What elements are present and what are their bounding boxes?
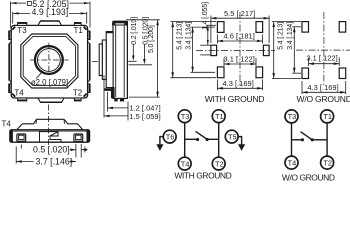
side view feet <box>114 98 124 101</box>
svg-text:5.5 [.217]: 5.5 [.217] <box>224 9 255 18</box>
wire T1-T2 <box>326 123 328 156</box>
dimension 0.5 front <box>70 144 88 158</box>
side view flange top elbow <box>106 31 112 33</box>
dimension 1.4 <box>200 25 216 55</box>
front view centerline <box>47 105 49 147</box>
svg-text:T4: T4 <box>14 88 24 97</box>
top view corner chamfer marks <box>12 27 86 97</box>
dimension 3.4 WOG <box>292 27 301 73</box>
pad T4 <box>302 68 309 79</box>
switch blade S2 <box>301 132 313 140</box>
ground pad left <box>211 45 217 55</box>
svg-text:T4: T4 <box>181 159 190 168</box>
svg-text:T1: T1 <box>323 112 332 121</box>
wire T3-T4 <box>184 123 186 158</box>
wire T6 to ground <box>160 137 163 145</box>
wire T1-T2 <box>218 123 220 158</box>
svg-text:T3: T3 <box>17 26 27 35</box>
pad T3 <box>302 22 309 32</box>
dimension 4.3 WOG <box>302 81 346 94</box>
wire T3-T4 <box>291 123 293 156</box>
dimension 5.0 <box>126 20 160 97</box>
centerlines WITH GROUND <box>196 12 275 86</box>
pad T1 <box>256 22 263 33</box>
front view right pin <box>74 134 83 141</box>
wire T5 to ground <box>238 137 242 145</box>
dimension 4.9 <box>13 12 87 24</box>
terminal T1 <box>321 110 334 123</box>
top view inner octagon <box>21 34 78 88</box>
svg-text:T5: T5 <box>228 132 237 141</box>
node left contact <box>301 138 304 141</box>
dimension 4.6 <box>217 35 262 44</box>
svg-text:4.3 [.169]: 4.3 [.169] <box>307 83 338 92</box>
terminal T2 <box>212 157 225 170</box>
svg-text:W/O GROUND: W/O GROUND <box>297 94 350 104</box>
svg-text:T6: T6 <box>166 132 175 141</box>
terminal T5 <box>225 130 238 143</box>
crosshair centerlines <box>30 43 69 77</box>
wire right contact stub <box>312 139 327 141</box>
terminal T4 <box>178 157 191 170</box>
svg-text:0.2 [.010]: 0.2 [.010] <box>131 17 138 45</box>
pad T4 <box>217 67 224 78</box>
dimension 1.2 <box>104 75 128 121</box>
top view body <box>11 25 87 98</box>
dimension 3.4 WG <box>191 27 216 72</box>
side view top terminal cap <box>112 21 128 26</box>
ground pad right <box>263 45 269 55</box>
side view bent terminal <box>104 87 114 98</box>
dimension 3.1 WG <box>224 58 256 66</box>
centerlines W/O GROUND <box>296 12 350 86</box>
front view left pin <box>17 134 26 141</box>
leader for diameter <box>36 71 43 78</box>
svg-text:T4: T4 <box>2 120 12 129</box>
dimension 0.5 side <box>129 44 152 65</box>
svg-text:4.6 [.181]: 4.6 [.181] <box>224 32 255 41</box>
svg-text:5.4 [.213]: 5.4 [.213] <box>278 22 285 50</box>
node left contact <box>196 138 199 141</box>
dimension 5.5 <box>211 16 269 44</box>
svg-text:T2: T2 <box>215 159 224 168</box>
switch blade S1 <box>196 131 208 139</box>
wire left contact stub <box>185 138 198 140</box>
svg-text:T1: T1 <box>215 112 224 121</box>
svg-text:T1: T1 <box>74 26 84 35</box>
terminal T3 <box>178 110 191 123</box>
svg-text:3.1 [.122]: 3.1 [.122] <box>306 54 337 63</box>
dimension 5.4 WG <box>171 22 217 78</box>
svg-text:T2: T2 <box>323 158 332 167</box>
svg-text:0.5 [.020]: 0.5 [.020] <box>33 145 70 155</box>
terminal T2 <box>321 156 334 169</box>
dimension 3.1 WOG <box>309 58 340 67</box>
dimension 5.4 WOG <box>272 22 301 79</box>
top view edge tabs <box>9 23 90 101</box>
terminal T3 <box>285 110 298 123</box>
dimension 3.7 <box>16 145 76 164</box>
svg-text:T3: T3 <box>181 112 190 121</box>
svg-text:T4: T4 <box>288 158 297 167</box>
svg-text:5.4 [.213]: 5.4 [.213] <box>177 22 184 50</box>
dimension 5.2 overall <box>11 2 91 28</box>
wire right contact stub <box>207 138 219 140</box>
svg-text:1.5 [.059]: 1.5 [.059] <box>129 112 160 121</box>
node right contact <box>311 138 314 141</box>
svg-text:1.4 [.055]: 1.4 [.055] <box>202 2 209 30</box>
wire left contact stub <box>292 139 303 141</box>
front view body <box>10 119 90 142</box>
side view body <box>99 22 127 99</box>
svg-text:3.1 [.122]: 3.1 [.122] <box>224 55 255 64</box>
svg-text:WITH GROUND: WITH GROUND <box>205 94 265 104</box>
svg-text:3.4 [.134]: 3.4 [.134] <box>185 22 192 50</box>
svg-text:WITH GROUND: WITH GROUND <box>174 171 231 181</box>
dimension 4.3 WG <box>217 80 262 91</box>
pad T2 <box>256 67 263 78</box>
svg-text:4.3 [.169]: 4.3 [.169] <box>223 79 254 88</box>
svg-text:T2: T2 <box>73 88 83 97</box>
svg-text:W/O GROUND: W/O GROUND <box>282 172 335 181</box>
svg-text:3.4 [.134]: 3.4 [.134] <box>287 22 294 50</box>
svg-text:4.9 [.193]: 4.9 [.193] <box>32 7 69 17</box>
terminal T1 <box>212 110 225 123</box>
dimension 0.2 <box>128 44 137 61</box>
button circle <box>35 46 63 74</box>
top view center bumps <box>9 21 90 103</box>
ground arrow left <box>156 144 163 151</box>
ground arrow right <box>238 144 245 151</box>
terminal T6 <box>163 130 176 143</box>
node right contact <box>206 138 209 141</box>
svg-text:5.0 [.200]: 5.0 [.200] <box>148 25 155 53</box>
pad T2 <box>339 68 346 79</box>
pad T3 <box>217 22 224 33</box>
svg-text:ø2.0 [.079]: ø2.0 [.079] <box>31 78 68 87</box>
centerline tick between views <box>92 60 98 62</box>
svg-text:T3: T3 <box>288 112 297 121</box>
svg-text:3.7 [.146]: 3.7 [.146] <box>36 156 73 166</box>
terminal T4 <box>285 156 298 169</box>
front view center contact section <box>40 132 62 143</box>
pad T1 <box>339 22 346 32</box>
